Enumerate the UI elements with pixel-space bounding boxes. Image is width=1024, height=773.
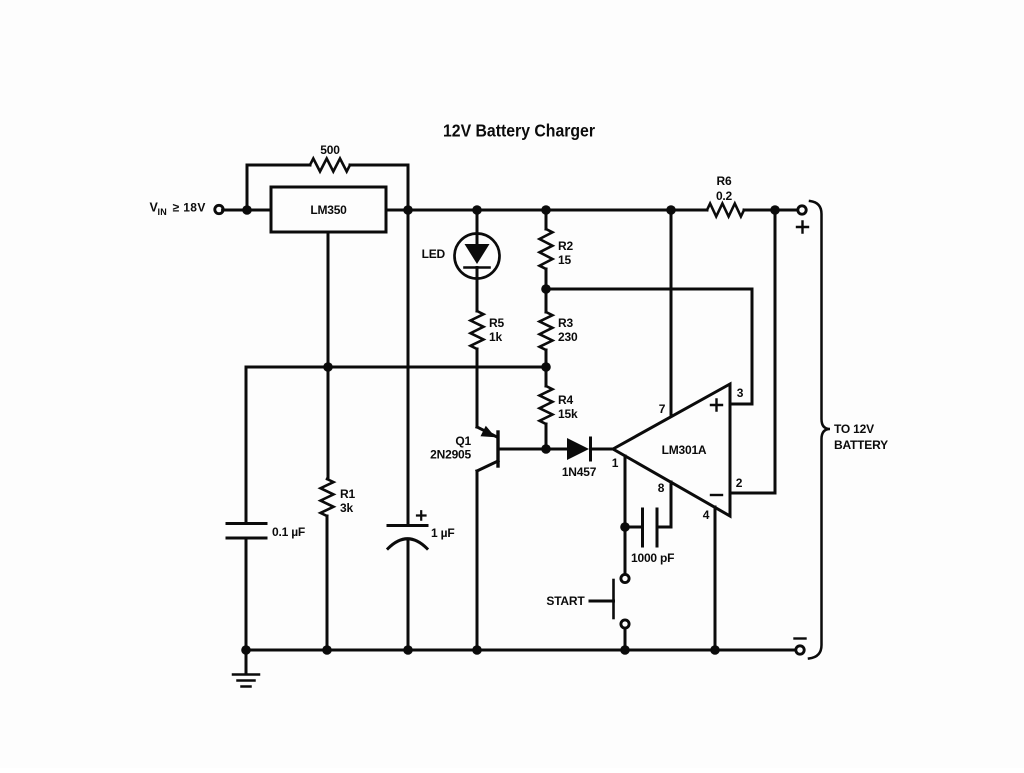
junction ground rail x477 Q1 collector [472,645,482,655]
junction ground rail x246 [241,645,251,655]
node VIN input terminal [215,205,223,213]
wire LED branch from top rail [476,210,479,244]
svg-text:500: 500 [320,143,340,157]
transistor Q1 base bar [496,432,499,466]
svg-text:0.1 µF: 0.1 µF [272,525,305,539]
resistor 500 [310,159,350,172]
svg-text:R2: R2 [558,239,573,253]
wire Q1 collector to ground rail [476,471,479,650]
junction pin1 C3 node [620,522,630,532]
svg-text:BATTERY: BATTERY [834,438,888,452]
wire pin 8 comp to C3 [659,482,672,527]
wire R6 to plus terminal [744,209,797,212]
label minus sign [795,637,806,639]
wire R3 to ADJ rail [545,350,548,367]
label plus sign C2 [417,511,426,520]
resistor R1 [321,479,334,516]
junction top rail x477 LED branch [472,205,482,215]
wire ADJ rail left drop to C1 [245,367,248,522]
junction top rail x546 R2 branch [541,205,551,215]
wire ADJ rail [246,366,546,369]
wire VIN terminal to LM350 input [223,209,271,212]
svg-text:LED: LED [422,247,446,261]
junction top rail x408 [403,205,413,215]
svg-text:LM301A: LM301A [662,443,707,457]
junction VIN node [242,205,252,215]
diode D1 1N457 triangle [567,438,589,460]
svg-text:IN: IN [158,207,167,217]
junction ADJ rail x328 [323,362,333,372]
svg-text:1000 pF: 1000 pF [631,551,674,565]
resistor R3 [540,312,553,350]
wire 500 feedback loop left riser [247,165,310,210]
transistor Q1 emitter arrow [481,426,496,438]
wire C1 to ground rail [245,539,248,650]
ground symbol [233,650,259,687]
svg-text:3: 3 [737,386,744,400]
wire pin 2 inverting input to output sense [730,210,775,493]
capacitor C3 1000pF right plate [656,509,659,546]
wire R1 to ground rail [326,516,329,650]
wire C2 to ground rail [407,539,410,650]
wire R4 to Q1 base node [545,424,548,449]
wire R2 branch from top rail [545,210,548,229]
capacitor C2 1uF bottom curved plate [388,539,427,549]
svg-text:R4: R4 [558,393,573,407]
wire R5 to Q1 emitter [476,349,479,427]
wire pin 4 Vminus to ground rail [714,507,717,650]
svg-text:1: 1 [612,456,619,470]
capacitor C3 1000pF left plate [641,509,644,546]
svg-text:7: 7 [659,402,666,416]
LED D2 triangle [465,244,490,264]
diode D1 cathode bar [589,438,592,460]
capacitor C2 1uF top plate [388,524,427,527]
svg-text:R3: R3 [558,316,573,330]
svg-text:15k: 15k [558,407,578,421]
regulator U2 LM350 box [271,187,386,232]
switch S1 blade [612,580,615,618]
wire switch to ground rail [624,629,627,650]
svg-text:2: 2 [736,476,743,490]
junction Q1 base R4 node [541,444,551,454]
svg-text:R1: R1 [340,487,355,501]
op-amp U1 LM301A triangle [613,384,730,516]
svg-text:R5: R5 [489,316,504,330]
svg-text:Q1: Q1 [455,434,471,448]
wire diode cathode to op-amp output [591,448,614,451]
svg-text:LM350: LM350 [310,203,347,217]
resistor R4 [540,386,553,424]
svg-text:2N2905: 2N2905 [430,448,471,462]
svg-text:0.2: 0.2 [716,189,733,203]
wire ground rail [246,649,795,652]
LED D2 circle [455,234,500,279]
svg-text:R6: R6 [717,174,732,188]
svg-text:3k: 3k [340,501,353,515]
wire 500 feedback loop right riser [350,165,408,210]
node battery plus terminal [798,206,806,214]
resistor R5 [471,311,484,349]
junction R2 R3 divider node [541,284,551,294]
switch S1 start upper contact [621,574,629,582]
wire VOUT drop to 1uF [407,210,410,524]
svg-text:≥ 18V: ≥ 18V [173,200,206,214]
LED D2 cathode bar [465,266,490,269]
node battery minus terminal [796,646,804,654]
svg-text:230: 230 [558,330,578,344]
svg-text:1N457: 1N457 [562,465,597,479]
capacitor C1 0.1uF top plate [227,522,266,525]
svg-text:1k: 1k [489,330,502,344]
op-amp minus input symbol [711,494,722,496]
svg-text:4: 4 [703,508,710,522]
svg-text:TO 12V: TO 12V [834,422,874,436]
svg-text:1 µF: 1 µF [431,526,454,540]
wire LED to R5 [476,268,479,312]
junction ground rail x625 switch [620,645,630,655]
junction output sense node [770,205,780,215]
svg-text:12V Battery Charger: 12V Battery Charger [443,121,595,141]
junction ground rail x327 R1 [322,645,332,655]
transistor Q1 collector lead [477,461,498,471]
wire R4 from ADJ node [545,367,548,386]
junction ground rail x408 C2 [403,645,413,655]
op-amp plus input symbol [711,400,722,411]
wire LM350 ADJ pin drop [327,232,330,367]
switch S1 lower contact [621,620,629,628]
label plus sign [797,222,808,233]
svg-text:8: 8 [658,481,665,495]
wire pin 3 noninverting input to divider [546,289,752,404]
wire Q1 base to diode anode [498,448,567,451]
svg-text:START: START [546,594,585,608]
wire C3 left lead [625,526,641,529]
svg-text:15: 15 [558,253,571,267]
switch S1 actuator wire [590,600,614,603]
battery bracket brace [809,201,830,659]
wire ADJ rail to R1 [327,367,330,479]
junction top rail x671 pin7 branch [666,205,676,215]
wire pin 7 supply from top rail [670,210,673,416]
junction ground rail x715 pin4 [710,645,720,655]
capacitor C1 0.1uF bottom plate [227,537,266,540]
resistor R6 [707,204,744,217]
resistor R2 [540,229,553,269]
wire pin 1 comp to C3 and start switch [624,456,627,573]
transistor Q1 emitter lead [477,427,497,437]
wire R2 to R3 [545,269,548,312]
wire top rail LM350 output to plus terminal [386,209,707,212]
junction ADJ rail right end [541,362,551,372]
